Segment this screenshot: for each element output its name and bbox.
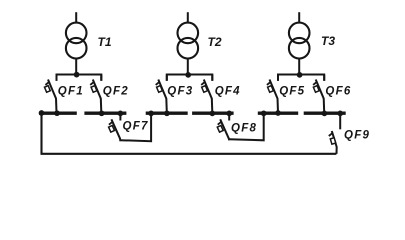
junction node QF2 drop [99, 110, 105, 116]
svg-text:QF5: QF5 [279, 85, 305, 97]
svg-text:QF8: QF8 [231, 123, 257, 135]
junction node QF4 drop [209, 111, 215, 117]
junction node QF8 right [261, 110, 267, 116]
junction node QF7 right [148, 111, 154, 117]
svg-text:QF2: QF2 [103, 85, 129, 97]
wire header T2 [167, 75, 213, 81]
junction node QF6 drop [322, 111, 328, 117]
wire left riser [40, 113, 42, 154]
circuit breaker QF4 [201, 75, 241, 113]
busbar segment 1 [39, 112, 77, 115]
junction T2 feed node [185, 72, 191, 78]
circuit breaker QF8 [217, 113, 257, 140]
circuit breaker QF5 [267, 75, 305, 113]
wire bottom tie rail [41, 153, 337, 155]
svg-text:QF7: QF7 [123, 120, 149, 132]
wire QF7 loop [120, 113, 151, 141]
circuit breaker QF3 [156, 75, 194, 113]
circuit breaker QF6 [313, 75, 351, 113]
junction node QF7 left [118, 111, 124, 117]
busbar segment 6 [304, 112, 346, 115]
circuit breaker QF7 [109, 113, 149, 141]
wire QF8 loop [229, 113, 264, 140]
busbar segment 4 [192, 112, 234, 115]
wire header T1 [57, 75, 102, 81]
svg-text:T2: T2 [208, 35, 222, 49]
svg-text:QF1: QF1 [58, 85, 84, 97]
junction node QF5 drop [275, 110, 281, 116]
svg-text:QF3: QF3 [167, 85, 193, 97]
transformer T2 [178, 12, 199, 75]
wire header T3 [278, 75, 324, 81]
busbar segment 5 [258, 112, 298, 115]
junction node QF1 drop [54, 110, 60, 116]
svg-text:QF6: QF6 [325, 85, 351, 97]
busbar segment 3 [146, 112, 188, 115]
busbar segment 2 [84, 112, 126, 115]
junction T1 feed node [74, 72, 80, 78]
svg-text:QF4: QF4 [215, 85, 241, 97]
circuit breaker QF2 [90, 75, 129, 113]
junction T3 feed node [297, 72, 303, 78]
circuit breaker QF1 [44, 75, 83, 113]
junction node QF3 drop [164, 110, 170, 116]
svg-text:T1: T1 [98, 35, 112, 49]
circuit breaker QF9 [329, 113, 370, 154]
junction node bus left end [39, 110, 45, 116]
transformer T1 [66, 12, 87, 75]
junction node QF9 stub [337, 111, 343, 117]
svg-text:QF9: QF9 [344, 130, 370, 142]
transformer T3 [289, 12, 310, 75]
junction node QF8 left [226, 111, 232, 117]
svg-text:T3: T3 [321, 34, 335, 48]
